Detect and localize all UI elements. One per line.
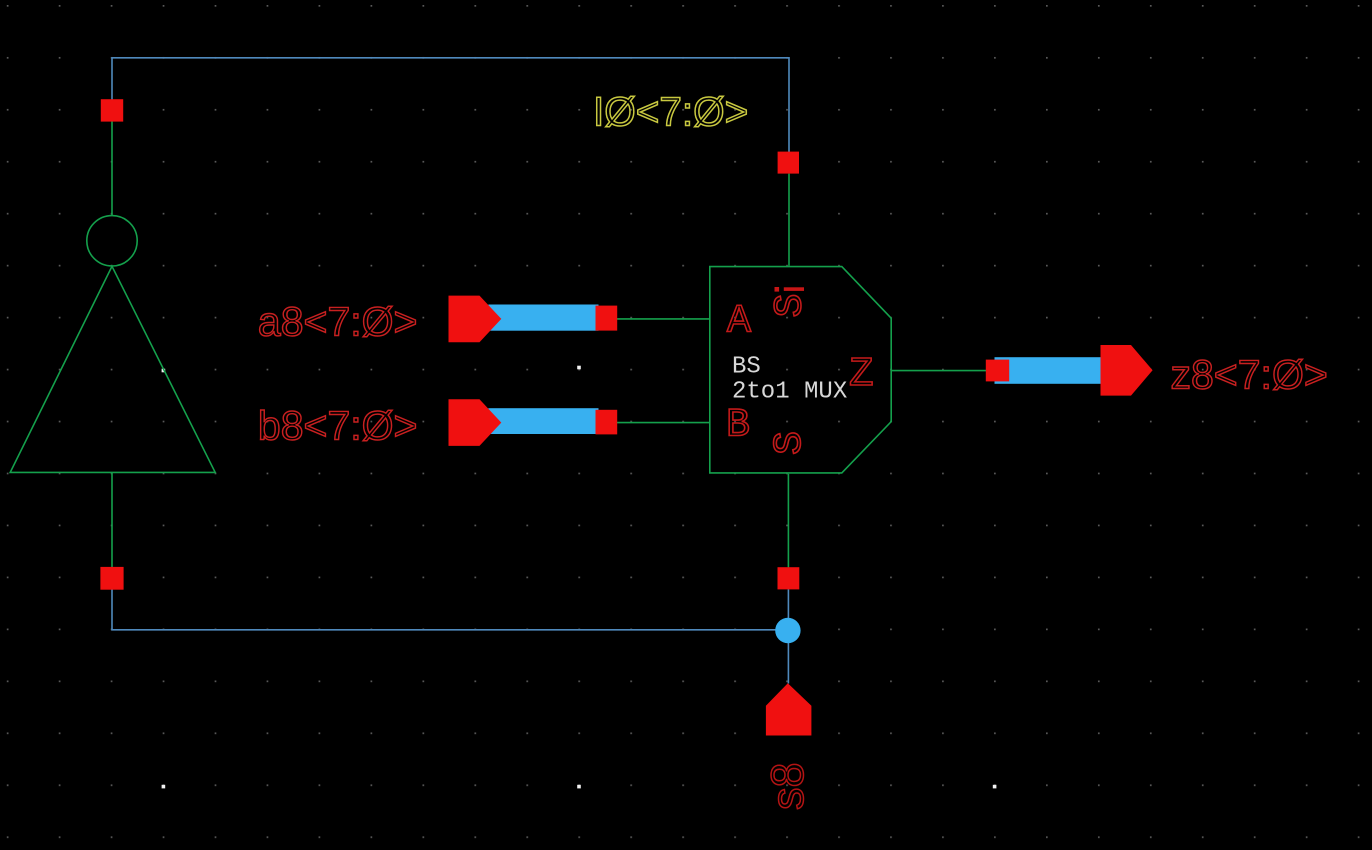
pin square: inverter input net bbox=[100, 567, 123, 590]
junction dot on s8 net bbox=[775, 618, 800, 643]
wire: MUX S pin stub (green) bbox=[787, 474, 789, 568]
svg-text:2to1 MUX: 2to1 MUX bbox=[732, 379, 847, 406]
bus wire b8 (wide) bbox=[488, 408, 598, 434]
wire: MUX Z output to z8 pin bbox=[892, 370, 998, 372]
wire net3: vertical s8 net through junction bbox=[787, 590, 789, 684]
input pin arrow a8 bbox=[449, 296, 502, 343]
wire net1: top route from inverter output to MUX Si pin bbox=[112, 58, 789, 152]
pin square: z8 bbox=[986, 360, 1009, 382]
pin symbol s8 (house) bbox=[766, 683, 812, 735]
input pin arrow b8 bbox=[449, 399, 502, 446]
svg-text:z8<7:Ø>: z8<7:Ø> bbox=[1171, 352, 1328, 398]
mux pin label Si: i dot bbox=[775, 287, 780, 292]
svg-text:s8: s8 bbox=[762, 762, 813, 810]
svg-text:IØ<7:Ø>: IØ<7:Ø> bbox=[593, 89, 748, 135]
svg-text:A: A bbox=[727, 300, 751, 345]
wire: MUX Si pin stub (green) bbox=[788, 174, 790, 266]
wire: b8 pin to MUX B input bbox=[606, 422, 710, 424]
mux U2 body outline bbox=[710, 267, 891, 473]
bright grid markers bbox=[162, 366, 997, 789]
svg-text:S: S bbox=[769, 293, 814, 317]
bus wire z8 (wide) bbox=[995, 357, 1103, 384]
output pin arrow z8 bbox=[1101, 345, 1153, 396]
mux pin label Si: i stem bbox=[784, 287, 804, 291]
wire: a8 pin to MUX A input bbox=[606, 318, 710, 320]
wire net2: bottom route from inverter input square to junction bbox=[112, 590, 788, 630]
pin square: a8 bbox=[596, 306, 618, 331]
pin square: b8 bbox=[596, 410, 618, 435]
pin square: MUX S net bbox=[778, 567, 800, 589]
svg-text:S: S bbox=[768, 431, 813, 455]
svg-text:a8<7:Ø>: a8<7:Ø> bbox=[258, 299, 418, 345]
pin square: MUX Si net bbox=[778, 152, 799, 174]
wire: inverter input stub (green) bbox=[111, 472, 113, 567]
bus wire a8 (wide) bbox=[488, 305, 598, 331]
svg-text:B: B bbox=[726, 404, 750, 449]
wire: inverter output stub (green) bbox=[111, 121, 113, 216]
pin square: inverter output net bbox=[101, 99, 123, 121]
inverter U1 triangle bbox=[10, 266, 215, 472]
svg-text:b8<7:Ø>: b8<7:Ø> bbox=[258, 403, 418, 449]
inverter U1 bubble bbox=[87, 216, 137, 266]
svg-text:BS: BS bbox=[732, 354, 761, 381]
svg-text:Z: Z bbox=[849, 352, 874, 398]
